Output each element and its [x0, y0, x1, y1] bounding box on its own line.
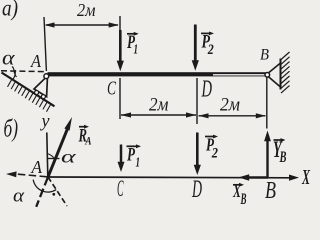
label P2 vector (bottom)	[205, 134, 218, 161]
svg-text:2м: 2м	[149, 95, 169, 116]
label P2 vector (top)	[201, 32, 214, 59]
label X_B vector	[232, 181, 246, 208]
svg-text:α: α	[13, 186, 25, 207]
svg-text:B: B	[260, 46, 269, 63]
label R_A vector	[78, 125, 92, 148]
angle arc at origin (bottom)	[33, 180, 56, 192]
force P1 (bottom diagram)	[118, 145, 125, 173]
tick below D	[196, 78, 198, 124]
svg-text:D: D	[201, 77, 212, 103]
svg-text:1: 1	[134, 43, 139, 58]
beam AB	[48, 72, 267, 76]
svg-text:α: α	[2, 48, 15, 70]
svg-text:2: 2	[207, 42, 214, 58]
reaction X_B arrow	[239, 174, 269, 181]
svg-text:B: B	[240, 191, 247, 208]
svg-text:P: P	[126, 145, 135, 165]
pin A	[44, 74, 49, 79]
svg-text:B: B	[265, 178, 276, 204]
roller support bracket at A	[34, 78, 47, 96]
svg-text:а): а)	[2, 0, 18, 21]
svg-text:у: у	[40, 111, 50, 131]
label P1 vector (top)	[126, 32, 138, 58]
pin support B wall triangle	[268, 63, 281, 87]
dimension 2м (C to D)	[121, 112, 196, 117]
x axis line	[48, 176, 292, 179]
dashed negative x arrow	[15, 174, 47, 177]
svg-text:D: D	[191, 176, 202, 203]
roller 2 at A	[41, 95, 45, 99]
reaction Y_B arrow	[264, 131, 271, 178]
wall hatching	[281, 52, 290, 93]
svg-text:B: B	[279, 149, 287, 166]
alpha arc (top diagram)	[13, 70, 15, 79]
svg-text:A: A	[30, 51, 42, 71]
R_A backward extension (dashed)	[36, 177, 48, 207]
small alpha arc at y axis	[47, 154, 55, 160]
svg-text:1: 1	[136, 156, 141, 171]
roller 1 at A	[35, 91, 39, 95]
alpha leader squiggle	[12, 67, 17, 78]
dashed beam axis left of A	[1, 70, 44, 73]
svg-text:A: A	[31, 157, 43, 177]
hatching of inclined surface	[8, 79, 51, 112]
force P2 (top diagram)	[192, 25, 199, 71]
dimension 2м (A to C) top	[44, 16, 120, 71]
x axis arrowhead	[289, 175, 299, 181]
tick below C	[119, 78, 121, 119]
svg-text:A: A	[85, 134, 92, 148]
svg-text:2м: 2м	[220, 95, 240, 116]
reaction R_A line	[48, 126, 69, 178]
wall line at B	[280, 59, 282, 90]
force P1 (top diagram)	[117, 30, 124, 71]
y axis line	[47, 133, 48, 178]
incline direction dashed line (down-right)	[48, 177, 67, 206]
label P1 vector (bottom)	[126, 144, 141, 170]
svg-text:C: C	[107, 78, 116, 100]
R_A arrowhead	[64, 117, 72, 131]
svg-text:C: C	[117, 176, 124, 201]
svg-text:α: α	[61, 147, 76, 167]
label Y_B vector	[273, 137, 287, 166]
force P2 (bottom diagram)	[194, 133, 201, 176]
svg-text:2м: 2м	[77, 0, 96, 20]
right angle dot	[52, 193, 55, 196]
svg-text:2: 2	[211, 146, 218, 162]
angle alpha tick between y axis and R_A	[47, 158, 60, 160]
inclined surface at A	[2, 73, 55, 107]
pin B	[265, 73, 270, 78]
svg-text:б): б)	[4, 116, 19, 143]
dimension 2м (D to B)	[199, 113, 266, 118]
svg-text:X: X	[301, 165, 310, 189]
tick below B	[266, 77, 268, 129]
